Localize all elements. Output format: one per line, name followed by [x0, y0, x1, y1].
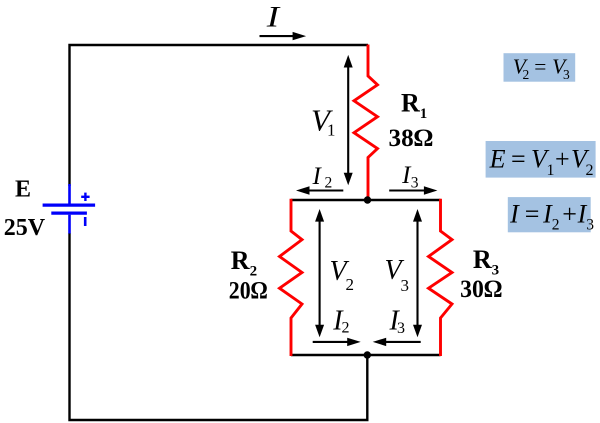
svg-text:2: 2	[346, 275, 355, 294]
svg-text:E: E	[15, 177, 31, 203]
voltage arrow V3 (double headed)	[413, 209, 422, 337]
current arrow I3 top (into R3 branch)	[389, 186, 437, 194]
node A (top junction of R1, R2, R3)	[364, 196, 371, 203]
svg-text:I: I	[312, 163, 323, 190]
svg-text:3: 3	[563, 67, 570, 82]
svg-text:3: 3	[397, 320, 405, 337]
svg-text:1: 1	[327, 121, 336, 140]
svg-text:20Ω: 20Ω	[229, 278, 268, 305]
svg-text:1: 1	[547, 162, 555, 179]
wire: bottom return (node B to battery -)	[70, 233, 368, 420]
svg-text:+: +	[555, 145, 570, 174]
current arrow I2 bottom (toward node B)	[313, 338, 361, 346]
resistor R3	[429, 199, 453, 356]
svg-text:E: E	[489, 145, 506, 174]
svg-text:30Ω: 30Ω	[460, 276, 502, 303]
svg-text:I: I	[509, 199, 520, 228]
svg-text:2: 2	[325, 175, 333, 192]
svg-text:25V: 25V	[4, 215, 46, 241]
equation E = V1 + V2	[486, 141, 596, 179]
svg-text:3: 3	[586, 216, 594, 233]
wire: parallel top rail	[291, 199, 441, 201]
voltage arrow V1 (double headed)	[344, 55, 353, 185]
svg-text:2: 2	[586, 162, 594, 179]
current arrow I3 bottom (toward node B)	[373, 338, 421, 346]
svg-text:+: +	[562, 199, 577, 228]
current arrow I	[260, 32, 307, 40]
resistor R1	[354, 45, 378, 200]
node B (bottom junction)	[364, 351, 371, 358]
equation V2 = V3	[504, 53, 576, 82]
battery E	[43, 184, 96, 234]
svg-text:3: 3	[401, 276, 410, 295]
svg-text:2: 2	[342, 320, 350, 337]
current arrow I2 top (into R2 branch)	[296, 186, 343, 194]
resistor R2	[280, 199, 303, 356]
voltage arrow V2 (double headed)	[315, 209, 324, 337]
svg-text:=: =	[534, 54, 546, 78]
svg-text:3: 3	[411, 175, 419, 192]
svg-text:2: 2	[523, 67, 530, 82]
svg-text:R1: R1	[401, 88, 427, 122]
svg-text:R3: R3	[473, 245, 499, 279]
svg-text:I: I	[266, 1, 282, 34]
equation I = I2 + I3	[508, 197, 594, 233]
wire: parallel bottom rail	[291, 354, 441, 356]
svg-text:R2: R2	[231, 246, 257, 280]
wire: top (battery + to R1)	[70, 45, 369, 186]
svg-text:=: =	[511, 145, 526, 174]
svg-text:=: =	[525, 199, 540, 228]
svg-text:38Ω: 38Ω	[389, 125, 434, 152]
svg-text:2: 2	[552, 216, 560, 233]
